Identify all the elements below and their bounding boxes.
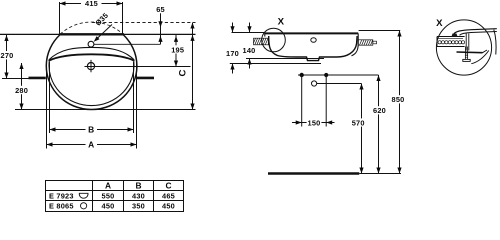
svg-text:X: X <box>278 17 285 28</box>
dim C <box>192 23 194 110</box>
svg-text:430: 430 <box>132 191 145 200</box>
dim A <box>47 144 137 146</box>
waste outlet circle <box>312 81 317 86</box>
wall fixing dots line <box>298 74 379 76</box>
waste outlet line <box>317 83 362 85</box>
left mounting tab <box>29 77 46 80</box>
dim 415 extension lines <box>59 2 61 34</box>
svg-text:X: X <box>436 18 443 29</box>
svg-text:450: 450 <box>162 202 175 211</box>
svg-text:570: 570 <box>352 118 365 127</box>
svg-text:140: 140 <box>243 46 256 55</box>
icon basin D-shape <box>79 193 88 198</box>
svg-text:A: A <box>88 140 94 150</box>
svg-text:465: 465 <box>162 191 175 200</box>
dim 65 <box>160 13 162 44</box>
detail circle marker <box>262 28 286 52</box>
dim 620 <box>378 75 380 174</box>
basin hidden arc (dashed) <box>60 22 123 34</box>
basin rim profile (detail) <box>454 29 497 34</box>
dim B extension lines <box>49 62 51 133</box>
inner rim arc <box>49 61 134 106</box>
svg-text:E 8065: E 8065 <box>49 202 74 211</box>
dim 415 <box>60 3 82 5</box>
svg-text:C: C <box>178 69 189 76</box>
faucet hole <box>88 41 94 47</box>
seal pad (dark) <box>452 34 458 37</box>
140 reference tick (bowl bottom) <box>246 58 324 60</box>
dashed tangent line at circle top <box>92 22 196 24</box>
faucet hole reference line <box>94 43 161 45</box>
svg-text:A: A <box>105 180 111 190</box>
basin bowl bottom profile <box>269 36 357 61</box>
svg-text:170: 170 <box>226 49 239 58</box>
svg-text:C: C <box>165 180 171 190</box>
ledge front edge <box>49 54 135 61</box>
dim B <box>50 129 134 131</box>
fixing dot left <box>300 73 304 77</box>
countertop surface right / 850 reference <box>359 30 401 32</box>
svg-text:150: 150 <box>308 118 321 127</box>
floor line thick <box>268 172 359 174</box>
basin outer rim solid arc <box>46 35 137 110</box>
bowl inner wall (detail) <box>494 30 496 55</box>
clamp arm <box>457 51 483 54</box>
left countertop hatch block <box>254 38 269 45</box>
dim 570 <box>361 84 363 174</box>
right fixing bolt hatch block <box>358 40 376 45</box>
leader arrow to faucet hole <box>96 25 113 41</box>
dim 280 <box>21 63 23 110</box>
basin bottom extension line <box>15 109 196 111</box>
svg-text:E 7923: E 7923 <box>49 191 74 200</box>
basin wall vertical (detail) <box>465 33 467 50</box>
drain <box>87 63 94 70</box>
svg-text:415: 415 <box>85 0 98 8</box>
wall line (plan view) <box>0 33 196 35</box>
right mounting tab <box>137 77 154 80</box>
countertop cross-section bar <box>437 37 465 47</box>
svg-text:B: B <box>135 180 141 190</box>
column lines <box>92 181 94 212</box>
fixing dot right <box>324 73 328 77</box>
bowl outer curve (detail) <box>471 51 489 64</box>
dim 150 <box>292 122 335 124</box>
dim 850 <box>399 31 401 174</box>
detail circle <box>436 20 491 75</box>
basin left lip edge <box>264 32 266 36</box>
dim A extension lines <box>46 64 48 149</box>
clamp bolt <box>464 47 466 60</box>
chipboard chain hatch <box>438 41 441 44</box>
svg-text:65: 65 <box>156 5 165 14</box>
drain centerline vertical <box>90 60 92 72</box>
row lines <box>46 190 184 192</box>
deck hole (side) <box>311 38 316 43</box>
svg-text:450: 450 <box>102 202 115 211</box>
svg-text:270: 270 <box>1 51 14 60</box>
dim 150 extension lines <box>301 75 303 127</box>
170 reference tick (drain stub bottom) <box>230 63 321 65</box>
svg-text:550: 550 <box>102 191 115 200</box>
basin right edge <box>352 33 359 55</box>
basin rim top (side) <box>265 32 358 34</box>
dim 140 <box>249 23 251 33</box>
inner rim back edge <box>49 47 134 59</box>
svg-text:195: 195 <box>171 46 184 55</box>
countertop surface left <box>232 32 265 34</box>
dim 170 <box>232 23 234 33</box>
svg-text:850: 850 <box>392 95 405 104</box>
floor line thin <box>359 173 401 175</box>
icon basin circle <box>81 203 87 209</box>
drain centerline horizontal <box>85 66 191 68</box>
svg-text:350: 350 <box>132 202 145 211</box>
basin back edge (thick segment on wall line) <box>59 33 124 35</box>
svg-text:620: 620 <box>373 106 386 115</box>
svg-text:280: 280 <box>15 86 28 95</box>
table frame <box>46 181 184 212</box>
svg-text:B: B <box>88 125 94 135</box>
dim 195 <box>175 35 177 67</box>
left tab extension line <box>2 78 29 80</box>
dim 270 <box>6 35 8 79</box>
